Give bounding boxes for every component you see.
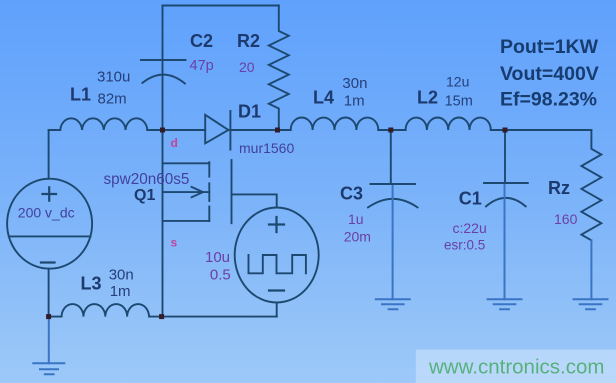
svg-text:d: d: [171, 136, 178, 150]
svg-text:0.5: 0.5: [210, 267, 231, 284]
svg-text:esr:0.5: esr:0.5: [444, 238, 485, 253]
svg-text:Pout=1KW: Pout=1KW: [500, 36, 599, 58]
svg-text:15m: 15m: [445, 94, 473, 110]
svg-text:L4: L4: [313, 88, 334, 108]
svg-text:mur1560: mur1560: [239, 140, 294, 156]
svg-text:L2: L2: [417, 88, 438, 108]
svg-text:10u: 10u: [205, 249, 230, 266]
svg-text:C3: C3: [340, 183, 363, 203]
svg-text:82m: 82m: [98, 91, 127, 108]
svg-text:30n: 30n: [342, 75, 367, 92]
svg-text:20: 20: [239, 59, 255, 75]
svg-text:20m: 20m: [344, 229, 371, 245]
svg-text:Q1: Q1: [134, 187, 155, 204]
svg-text:160: 160: [554, 211, 578, 227]
svg-text:1u: 1u: [348, 211, 364, 227]
svg-text:spw20n60s5: spw20n60s5: [104, 171, 190, 188]
svg-text:L1: L1: [70, 85, 91, 105]
svg-text:c:22u: c:22u: [453, 220, 487, 236]
svg-text:200 v_dc: 200 v_dc: [18, 205, 75, 221]
svg-text:Vout=400V: Vout=400V: [500, 63, 599, 85]
svg-text:D1: D1: [238, 102, 261, 122]
svg-text:s: s: [171, 236, 178, 250]
svg-text:Rz: Rz: [548, 178, 570, 198]
svg-text:12u: 12u: [446, 74, 469, 90]
svg-text:www.cntronics.com: www.cntronics.com: [428, 356, 604, 379]
svg-text:310u: 310u: [97, 69, 130, 86]
svg-text:C2: C2: [190, 31, 213, 51]
svg-text:R2: R2: [237, 31, 260, 51]
svg-text:47p: 47p: [190, 58, 214, 74]
svg-text:30n: 30n: [109, 267, 134, 284]
svg-text:C1: C1: [459, 189, 482, 209]
svg-text:1m: 1m: [344, 93, 365, 110]
svg-text:1m: 1m: [110, 283, 131, 300]
svg-text:Ef=98.23%: Ef=98.23%: [500, 89, 597, 111]
svg-text:L3: L3: [81, 274, 102, 294]
